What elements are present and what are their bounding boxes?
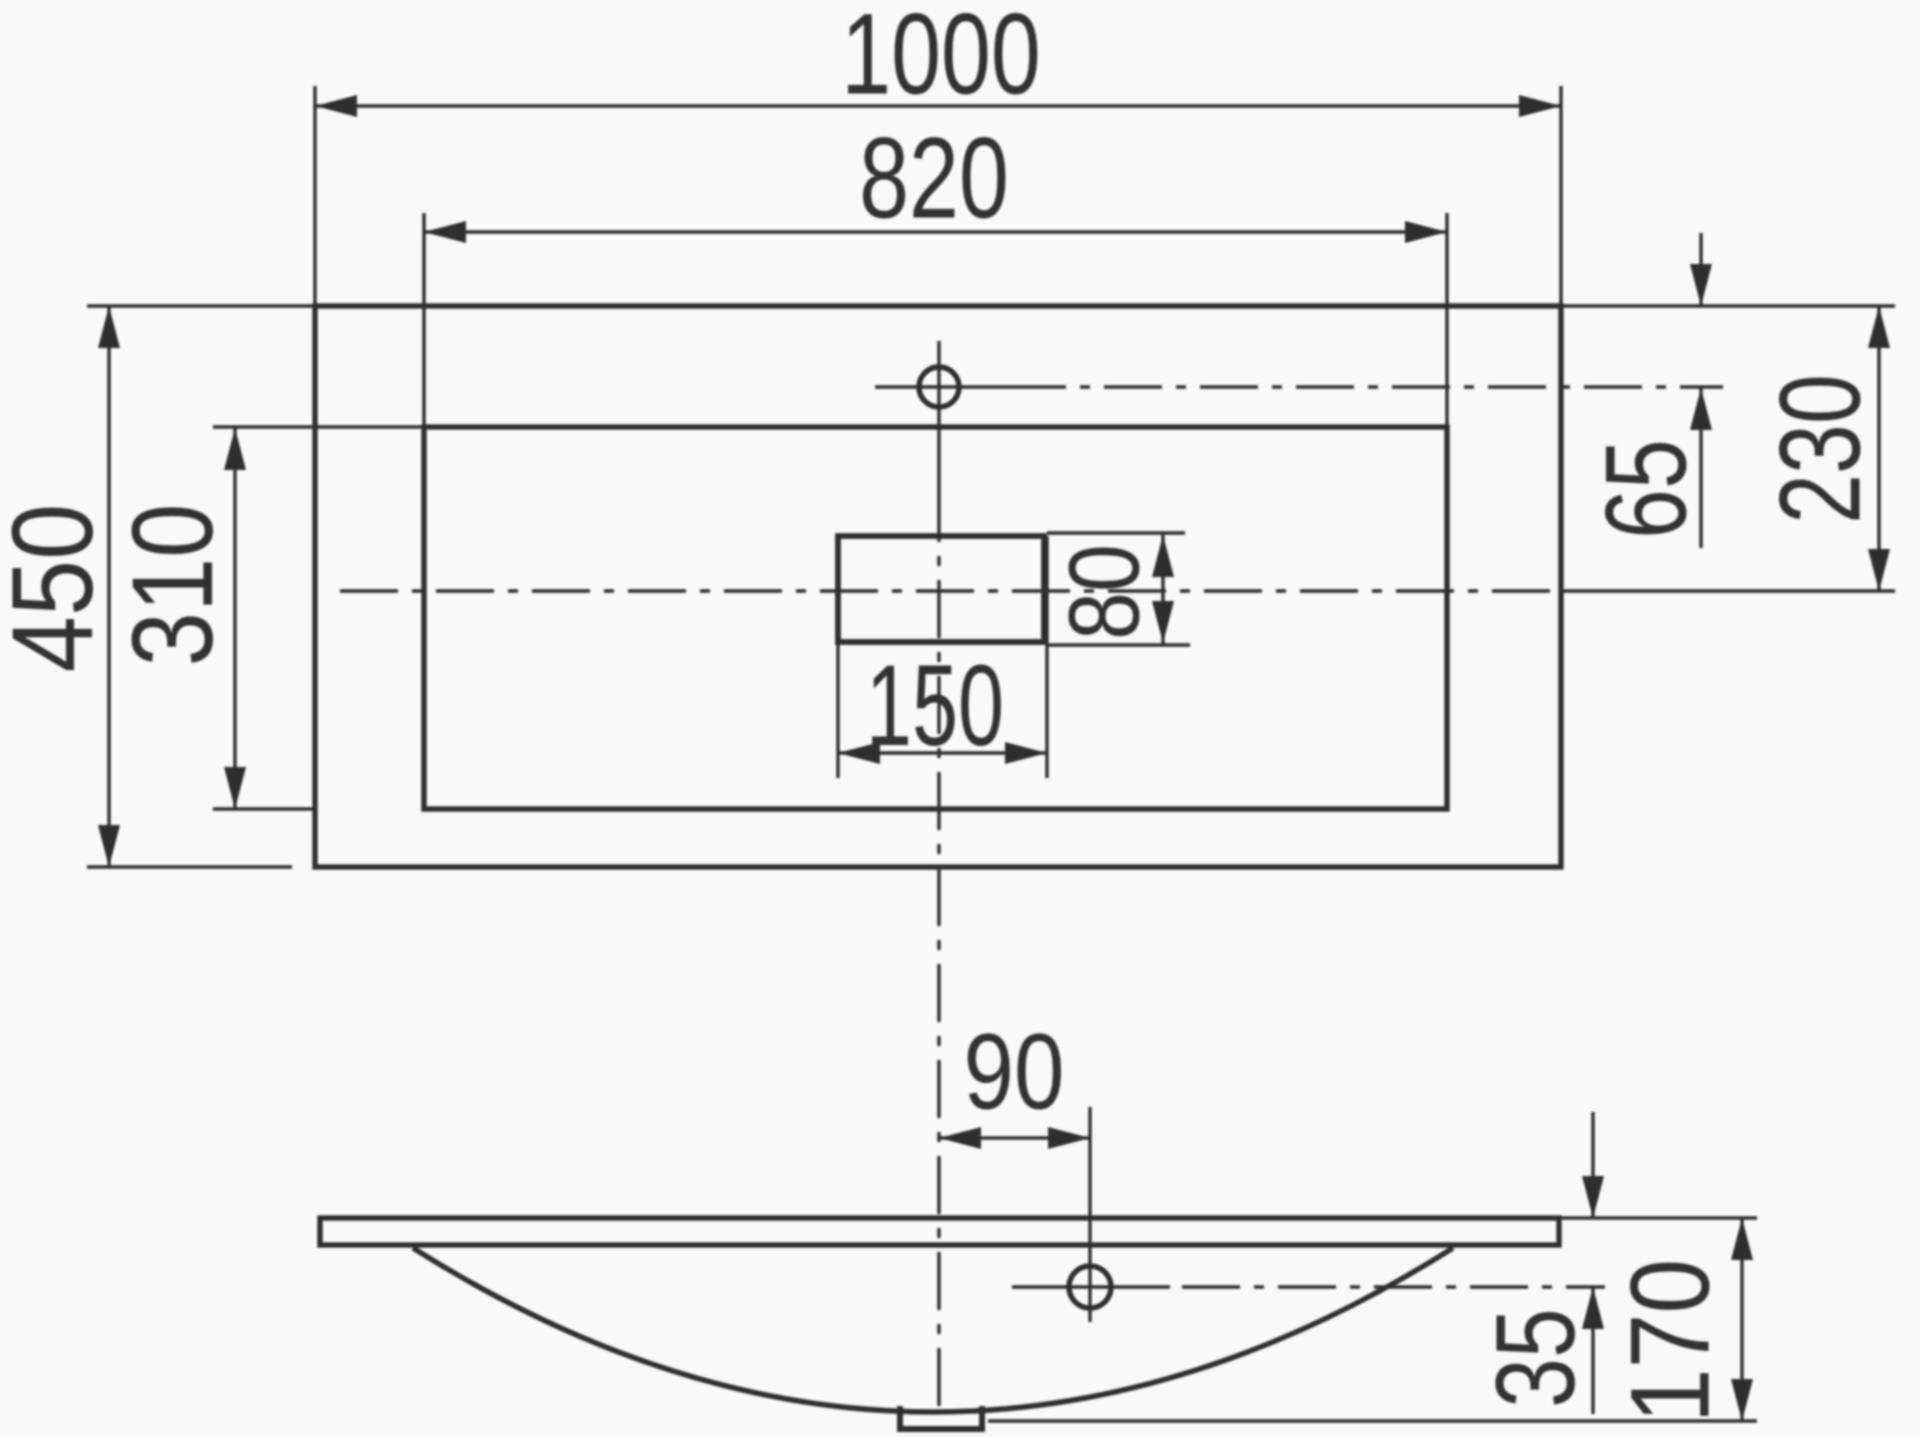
dimension 150 line — [838, 751, 1047, 754]
svg-text:450: 450 — [0, 504, 116, 673]
slab top edge right extension — [1559, 1216, 1757, 1219]
outer basin rim rectangle (top view) — [315, 306, 1561, 867]
drain cutout rectangle (top view) — [838, 536, 1044, 642]
svg-text:820: 820 — [859, 114, 1009, 242]
dimension 35 arrows — [1591, 1112, 1594, 1218]
dimension 90 line — [939, 1136, 1090, 1139]
bottom extension line (section) — [988, 1419, 1757, 1422]
faucet hole circle (section view) — [1069, 1266, 1111, 1308]
faucet hole circle (top view) — [919, 367, 959, 407]
dimension 65 arrows — [1699, 233, 1702, 306]
faucet vertical extension (section view) — [1088, 1107, 1091, 1322]
inner basin rectangle (top view) — [424, 427, 1447, 809]
svg-text:80: 80 — [1048, 544, 1160, 640]
faucet centerline to right (dash-dot) — [1008, 385, 1723, 388]
svg-text:170: 170 — [1609, 1259, 1733, 1423]
section center line horizontal solid — [1012, 1285, 1170, 1288]
dimension 1000 line — [315, 104, 1561, 107]
dimension 310 line — [233, 428, 236, 809]
svg-text:65: 65 — [1582, 439, 1710, 539]
dimension 230 line — [1877, 306, 1880, 591]
dimension 170 line — [1740, 1218, 1743, 1421]
vertical center line solid through faucet — [937, 341, 940, 484]
svg-text:230: 230 — [1756, 374, 1884, 524]
svg-text:90: 90 — [964, 1012, 1065, 1132]
countertop slab (section view) — [320, 1218, 1559, 1245]
svg-text:1000: 1000 — [841, 0, 1041, 118]
section center line dash-dot — [1182, 1285, 1605, 1288]
drain stub (section view) — [900, 1406, 982, 1429]
svg-text:310: 310 — [107, 503, 236, 666]
faucet crosshair horizontal — [875, 385, 1008, 388]
outer top edge right extension — [1561, 304, 1895, 308]
dimension 450 line — [107, 306, 110, 867]
horizontal center line top view (dash-dot) — [340, 589, 1561, 592]
svg-text:35: 35 — [1474, 1308, 1599, 1408]
center line right extension (solid) — [1561, 589, 1895, 592]
dimension 820 line — [424, 230, 1447, 233]
dimension 80 lines — [1047, 531, 1185, 534]
basin bowl curve (section view) — [413, 1248, 1453, 1412]
svg-text:150: 150 — [866, 642, 1004, 771]
vertical center line dash-dot — [937, 484, 940, 1407]
